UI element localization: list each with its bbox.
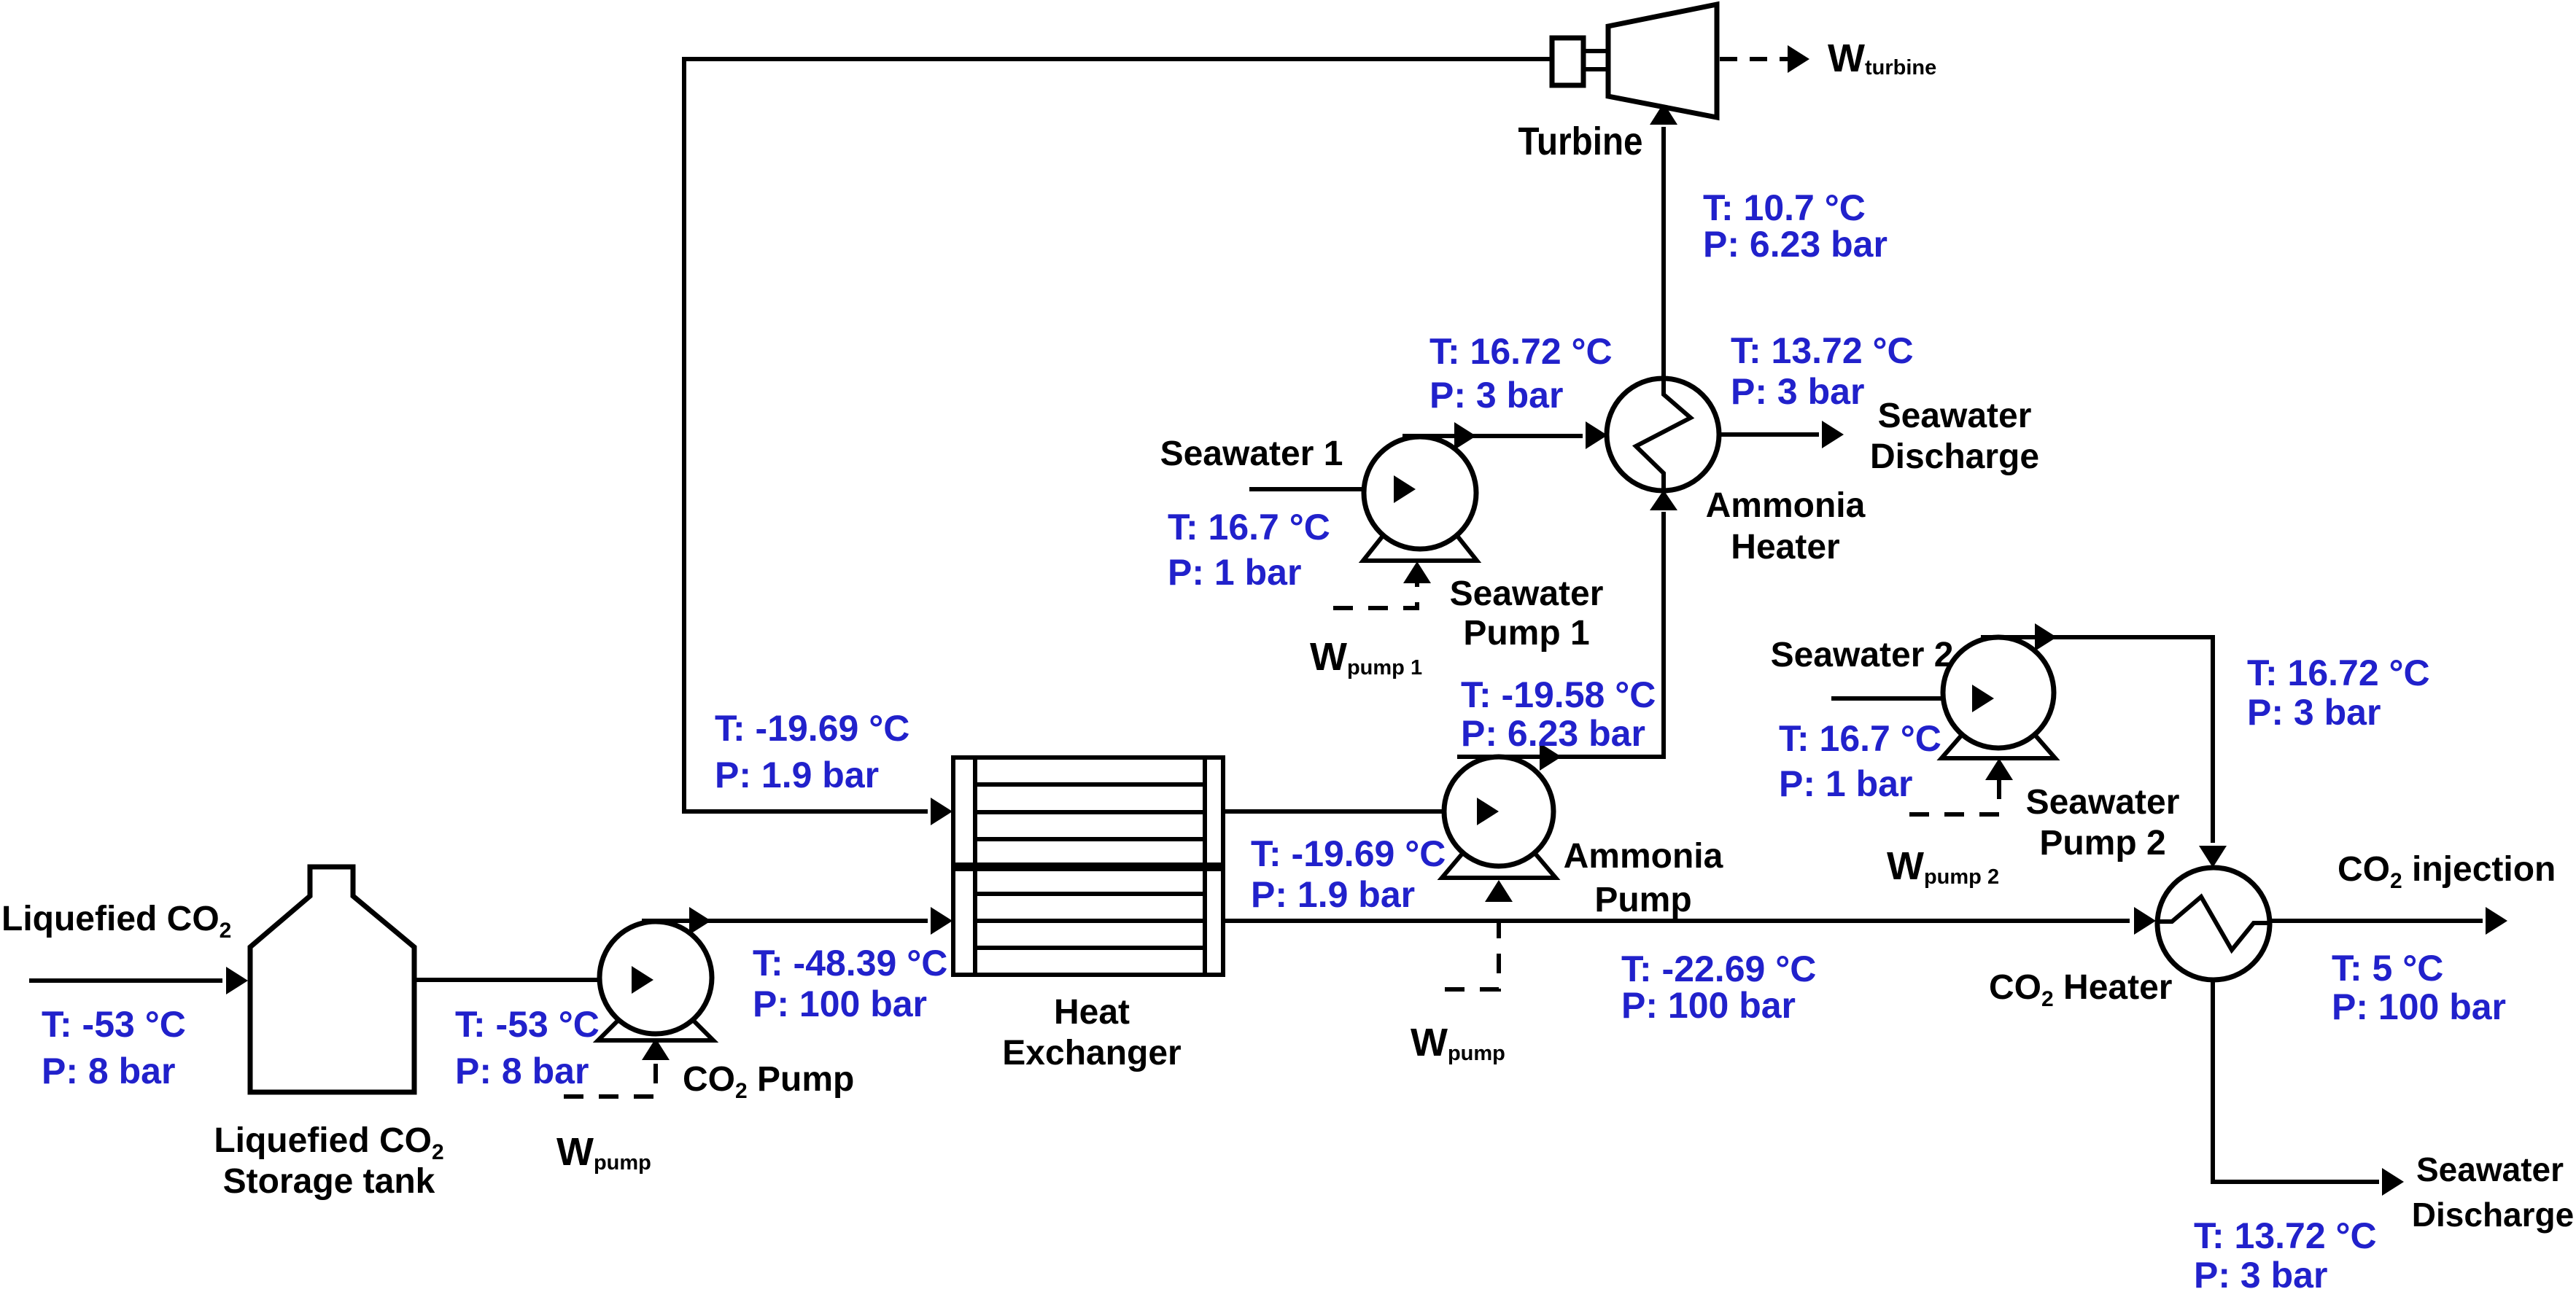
wire: W_pump dashed input to CO2 pump bbox=[564, 1038, 670, 1097]
wire: heat exchanger upper outlet to ammonia pump bbox=[1223, 809, 1471, 814]
wire: ammonia pump outlet riser to ammonia heater bbox=[1457, 490, 1677, 771]
wire: seawater pump 2 outlet down to CO2 heater bbox=[1981, 623, 2227, 868]
svg-text:P: 100 bar: P: 100 bar bbox=[753, 984, 927, 1024]
svg-text:Seawater 2: Seawater 2 bbox=[1771, 636, 1954, 674]
svg-text:P: 6.23 bar: P: 6.23 bar bbox=[1703, 224, 1888, 265]
wire: liquefied CO2 feed into storage tank bbox=[29, 967, 248, 994]
ammonia heater bbox=[1607, 378, 1719, 491]
svg-text:T: 16.7 °C: T: 16.7 °C bbox=[1779, 718, 1941, 759]
wire: W_pump 2 dashed input to seawater pump 2 bbox=[1909, 758, 2013, 814]
svg-text:Liquefied CO2: Liquefied CO2 bbox=[1, 900, 231, 943]
seawater pump 1 bbox=[1363, 437, 1477, 561]
svg-text:P: 100 bar: P: 100 bar bbox=[1621, 985, 1796, 1026]
svg-text:P: 8 bar: P: 8 bar bbox=[42, 1051, 175, 1091]
CO2 heater bbox=[2157, 868, 2270, 980]
heat exchanger bbox=[953, 758, 1223, 975]
svg-text:T: -53 °C: T: -53 °C bbox=[455, 1004, 600, 1045]
svg-text:P: 3 bar: P: 3 bar bbox=[2194, 1255, 2327, 1289]
ammonia pump bbox=[1442, 757, 1556, 878]
svg-text:T: 16.72 °C: T: 16.72 °C bbox=[2247, 653, 2430, 693]
svg-text:Discharge: Discharge bbox=[1870, 437, 2039, 476]
svg-text:T: -22.69 °C: T: -22.69 °C bbox=[1621, 949, 1816, 989]
svg-text:CO2 Pump: CO2 Pump bbox=[683, 1060, 854, 1103]
svg-text:P: 3 bar: P: 3 bar bbox=[1429, 375, 1563, 416]
svg-text:Exchanger: Exchanger bbox=[1002, 1034, 1181, 1072]
svg-text:Pump: Pump bbox=[1594, 881, 1691, 919]
svg-text:T: -53 °C: T: -53 °C bbox=[42, 1004, 186, 1045]
svg-text:CO2 injection: CO2 injection bbox=[2338, 850, 2556, 893]
svg-text:P: 3 bar: P: 3 bar bbox=[1731, 371, 1864, 412]
wire: W_pump 1 dashed input to seawater pump 1 bbox=[1333, 561, 1431, 608]
svg-text:Storage tank: Storage tank bbox=[223, 1162, 435, 1201]
svg-text:T: -19.69 °C: T: -19.69 °C bbox=[1251, 833, 1446, 874]
wire: ammonia heater top to turbine inlet bbox=[1650, 103, 1677, 379]
arrowhead: into CO2 pump bbox=[632, 966, 653, 994]
svg-text:P: 6.23 bar: P: 6.23 bar bbox=[1461, 713, 1645, 754]
wire: heat exchanger lower outlet to CO2 heater bbox=[1223, 907, 2156, 935]
svg-text:P: 1.9 bar: P: 1.9 bar bbox=[715, 755, 879, 795]
svg-text:T: 13.72 °C: T: 13.72 °C bbox=[2194, 1215, 2377, 1256]
svg-text:T: 16.7 °C: T: 16.7 °C bbox=[1168, 507, 1330, 548]
turbine bbox=[1552, 4, 1717, 117]
wire: seawater pump 1 outlet to ammonia heater bbox=[1403, 421, 1607, 450]
svg-text:Ammonia: Ammonia bbox=[1564, 837, 1723, 876]
svg-text:Heat: Heat bbox=[1054, 993, 1130, 1032]
wire: storage tank outlet to CO2 pump bbox=[414, 978, 626, 982]
svg-text:Seawater 1: Seawater 1 bbox=[1160, 435, 1343, 473]
svg-text:Discharge: Discharge bbox=[2412, 1196, 2574, 1234]
wire: CO2 heater outlet to CO2 injection bbox=[2270, 907, 2507, 935]
wire: Seawater 2 inlet to pump 2 bbox=[1831, 696, 1967, 701]
svg-text:Turbine: Turbine bbox=[1518, 120, 1643, 163]
svg-text:P: 8 bar: P: 8 bar bbox=[455, 1051, 589, 1091]
wire: W_pump dashed input to ammonia pump bbox=[1445, 880, 1513, 989]
liquefied CO2 storage tank bbox=[250, 867, 414, 1092]
svg-text:T: 10.7 °C: T: 10.7 °C bbox=[1703, 187, 1866, 228]
svg-text:Seawater: Seawater bbox=[1878, 397, 2032, 435]
wire: ammonia heater outlet to seawater discharge (top) bbox=[1719, 421, 1844, 448]
wire: CO2 heater bottom to seawater discharge (bottom) bbox=[2213, 980, 2404, 1196]
wire: turbine work output (dashed) bbox=[1720, 45, 1809, 73]
svg-text:Seawater: Seawater bbox=[2416, 1150, 2564, 1188]
svg-text:Seawater: Seawater bbox=[2026, 783, 2180, 822]
svg-text:Pump 2: Pump 2 bbox=[2039, 824, 2165, 862]
svg-text:T: 5 °C: T: 5 °C bbox=[2332, 948, 2443, 989]
svg-text:T: -19.69 °C: T: -19.69 °C bbox=[715, 708, 909, 749]
svg-text:Liquefied CO2: Liquefied CO2 bbox=[214, 1121, 443, 1164]
seawater pump 2 bbox=[1941, 637, 2055, 758]
CO2 pump bbox=[598, 922, 713, 1040]
wire: Seawater 1 inlet to pump 1 bbox=[1249, 487, 1389, 491]
svg-text:P: 1 bar: P: 1 bar bbox=[1779, 763, 1912, 804]
svg-text:P: 100 bar: P: 100 bar bbox=[2332, 986, 2506, 1027]
arrowhead: into ammonia pump bbox=[1477, 798, 1499, 825]
svg-text:T: 13.72 °C: T: 13.72 °C bbox=[1731, 330, 1914, 371]
arrowhead: into seawater pump 1 bbox=[1394, 475, 1416, 503]
svg-text:P: 3 bar: P: 3 bar bbox=[2247, 692, 2381, 733]
svg-text:Heater: Heater bbox=[1731, 528, 1839, 566]
svg-text:Seawater: Seawater bbox=[1450, 575, 1604, 613]
wire: CO2 pump outlet to heat exchanger lower inlet bbox=[642, 907, 953, 935]
svg-text:T: -19.58 °C: T: -19.58 °C bbox=[1461, 674, 1656, 715]
svg-text:P: 1.9 bar: P: 1.9 bar bbox=[1251, 874, 1415, 915]
svg-text:T: 16.72 °C: T: 16.72 °C bbox=[1429, 331, 1613, 372]
arrowhead: into seawater pump 2 bbox=[1972, 685, 1994, 712]
svg-text:Ammonia: Ammonia bbox=[1706, 486, 1866, 525]
wire: ammonia return loop from turbine shaft line down and into heat exchanger upper inlet bbox=[684, 59, 1552, 825]
svg-text:T: -48.39 °C: T: -48.39 °C bbox=[753, 943, 947, 984]
svg-text:P: 1 bar: P: 1 bar bbox=[1168, 552, 1301, 593]
svg-text:CO2 Heater: CO2 Heater bbox=[1989, 968, 2172, 1011]
svg-text:Pump 1: Pump 1 bbox=[1463, 614, 1589, 653]
